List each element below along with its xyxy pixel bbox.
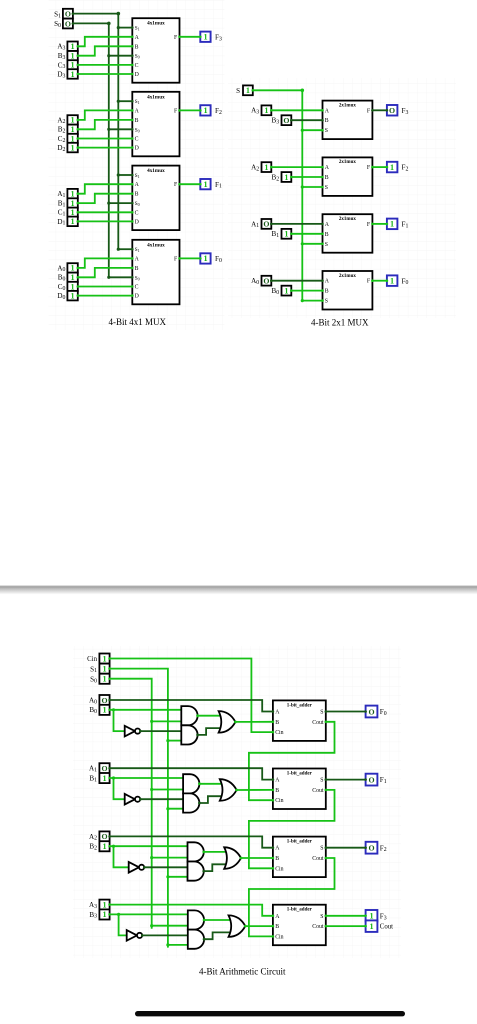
svg-text:1: 1 bbox=[71, 70, 75, 79]
svg-text:1: 1 bbox=[284, 286, 288, 295]
svg-text:B: B bbox=[325, 289, 329, 295]
pin dot AND1 row3 out bbox=[203, 919, 206, 922]
pin dot mux7 F bbox=[371, 109, 374, 112]
svg-text:S0: S0 bbox=[135, 54, 140, 60]
wire B2 to mux bbox=[291, 176, 322, 178]
wire S1 tap mux2 bbox=[118, 100, 132, 102]
svg-text:C: C bbox=[135, 63, 139, 69]
wire S row0 to F0 bbox=[326, 711, 366, 713]
svg-text:B: B bbox=[275, 720, 279, 726]
wire A1 to A pin bbox=[78, 184, 133, 194]
output pin F1 right circuit bbox=[386, 219, 398, 230]
junction S1 tap row2 bbox=[166, 875, 169, 878]
svg-text:1: 1 bbox=[102, 842, 106, 851]
svg-text:1: 1 bbox=[71, 291, 75, 300]
junction S1 tap mux2 bbox=[117, 100, 120, 103]
and gate G2a bbox=[188, 842, 204, 861]
output pin F3 right circuit bbox=[386, 105, 398, 116]
wire D2 to D pin bbox=[78, 147, 133, 149]
wire A3 to A pin bbox=[78, 37, 133, 47]
pin dot mux3 C bbox=[131, 64, 134, 67]
wire S0 tap mux1 bbox=[109, 202, 133, 204]
pin dot adder1 A bbox=[272, 778, 275, 781]
wire S0 tap mux0 bbox=[109, 276, 133, 278]
pin dot mux5 S bbox=[321, 243, 324, 246]
svg-text:O: O bbox=[101, 764, 107, 773]
pin dot OR row1 out bbox=[235, 789, 238, 792]
output pin F0 value 1 bbox=[199, 253, 211, 263]
svg-text:1: 1 bbox=[390, 277, 394, 286]
wire OR row2 out to adder B bbox=[241, 857, 273, 859]
wire B0 to AND gate bbox=[110, 709, 184, 711]
wire NOT0 out to AND2 bbox=[140, 730, 183, 732]
svg-text:4-Bit 2x1 MUX: 4-Bit 2x1 MUX bbox=[311, 317, 369, 327]
svg-text:O: O bbox=[368, 707, 374, 716]
svg-text:4x1mux: 4x1mux bbox=[147, 94, 165, 100]
wire F1 output bbox=[180, 183, 201, 185]
wire S1 tap row0 bbox=[168, 740, 183, 742]
wire B1 to NOT gate bbox=[114, 778, 125, 799]
wire B3 to B pin bbox=[78, 46, 133, 55]
svg-text:1: 1 bbox=[71, 264, 75, 273]
svg-text:D: D bbox=[135, 219, 139, 225]
pin dot mux3 S0 bbox=[131, 54, 134, 57]
svg-text:1: 1 bbox=[71, 116, 75, 125]
input pin D3 value 1 bbox=[67, 69, 79, 79]
pin dot NOT1 out bbox=[139, 798, 142, 801]
junction S1 corner bbox=[117, 12, 121, 16]
pin dot mux0 B bbox=[131, 267, 134, 270]
wire F1 output right bbox=[372, 223, 387, 225]
pin dot mux2 S1 bbox=[131, 100, 134, 103]
wire S0 tap mux2 bbox=[109, 128, 133, 130]
pin dot adder3 Cin bbox=[272, 935, 275, 938]
pin dot mux6 S bbox=[321, 186, 324, 189]
pin dot mux0 S0 bbox=[131, 276, 134, 279]
svg-text:1: 1 bbox=[102, 910, 106, 919]
wire AND1 row3 out to OR bbox=[204, 919, 231, 921]
pin dot AND2 row0 out bbox=[196, 734, 199, 737]
subcircuit 4x1mux U1 block bbox=[132, 166, 179, 231]
svg-text:B: B bbox=[135, 118, 139, 124]
not gate G1n bbox=[125, 794, 141, 805]
input pin A2 bbox=[262, 162, 273, 172]
junction B2 split bbox=[112, 845, 115, 848]
wire S tap mux2 bbox=[302, 186, 322, 188]
svg-text:1: 1 bbox=[203, 254, 207, 263]
input pin A2 value 1 bbox=[67, 115, 79, 125]
and gate G0b bbox=[181, 725, 197, 744]
wire Cout0 to Cin1 bbox=[249, 722, 335, 800]
wire B1 to AND gate bbox=[110, 777, 186, 779]
output pin F0 right circuit bbox=[386, 275, 398, 286]
wire B0 to NOT gate bbox=[114, 710, 125, 731]
svg-text:Cout: Cout bbox=[312, 856, 324, 862]
svg-text:B: B bbox=[275, 856, 279, 862]
wire B3 to NOT gate bbox=[119, 914, 127, 935]
output pin F2 value 0 bbox=[364, 842, 377, 854]
svg-text:C: C bbox=[135, 210, 139, 216]
wire S tap mux1 bbox=[302, 243, 322, 245]
svg-text:2x1mux: 2x1mux bbox=[339, 160, 356, 165]
wire S1 tap mux3 bbox=[118, 27, 132, 29]
svg-text:1: 1 bbox=[71, 190, 75, 199]
svg-text:B: B bbox=[325, 175, 329, 181]
subcircuit 2x1mux U4 block bbox=[323, 271, 373, 310]
svg-text:O: O bbox=[101, 832, 107, 841]
svg-text:1: 1 bbox=[264, 163, 268, 172]
wire B1 to B pin bbox=[78, 194, 133, 203]
pin dot mux2 D bbox=[131, 146, 134, 149]
pin dot mux3 D bbox=[131, 73, 134, 76]
wire F0 output bbox=[180, 257, 201, 259]
svg-text:4-Bit Arithmetic Circuit: 4-Bit Arithmetic Circuit bbox=[199, 966, 286, 976]
wire C3 to C pin bbox=[78, 64, 133, 66]
svg-text:1: 1 bbox=[203, 33, 207, 42]
pin dot mux6 B bbox=[321, 176, 324, 179]
svg-text:1: 1 bbox=[102, 900, 106, 909]
subcircuit 1-bit_adder U11 block bbox=[273, 905, 326, 946]
input pin D2 value 1 bbox=[67, 143, 79, 153]
wire D3 to D pin bbox=[78, 73, 133, 75]
wire NOT1 out to AND2 bbox=[140, 798, 185, 800]
page divider shadow bbox=[0, 586, 477, 588]
svg-text:2x1mux: 2x1mux bbox=[339, 217, 356, 222]
input pin Cin value 1 bbox=[99, 654, 110, 664]
wire AND1 row1 out to OR bbox=[199, 783, 222, 785]
not gate G3n bbox=[127, 930, 143, 941]
pin dot adder2 S bbox=[325, 846, 328, 849]
junction S corner bbox=[301, 89, 305, 93]
pin dot mux5 F bbox=[371, 223, 374, 226]
pin dot mux2 S0 bbox=[131, 128, 134, 131]
output pin F3 value 1 bbox=[364, 910, 377, 922]
junction S1 tap row0 bbox=[166, 739, 169, 742]
input pin A0 bbox=[262, 276, 273, 286]
svg-text:Cin: Cin bbox=[275, 866, 283, 872]
wire B3 to mux bbox=[291, 119, 322, 121]
wire F2 output bbox=[180, 109, 201, 111]
wire B2 to AND gate bbox=[110, 845, 190, 847]
svg-text:2x1mux: 2x1mux bbox=[339, 103, 356, 108]
pin dot adder1 B bbox=[272, 789, 275, 792]
wire Cout final bbox=[326, 925, 366, 927]
pin dot mux1 F bbox=[178, 183, 181, 186]
pin dot NOT0 out bbox=[139, 730, 142, 733]
wire Cout2 to Cin3 bbox=[249, 858, 335, 936]
wire NOT2 out to AND2 bbox=[144, 866, 189, 868]
wire Cin to adder0 bbox=[110, 659, 273, 733]
svg-text:S0: S0 bbox=[135, 201, 140, 207]
wire S1 tap row2 bbox=[168, 876, 190, 878]
pin dot adder2 A bbox=[272, 846, 275, 849]
svg-text:Cout: Cout bbox=[380, 924, 393, 931]
input pin B2 bbox=[282, 172, 293, 182]
svg-text:S1: S1 bbox=[135, 26, 140, 32]
wire AND2 row3 out to OR bbox=[204, 932, 231, 939]
svg-text:S: S bbox=[320, 846, 323, 852]
svg-text:S: S bbox=[325, 185, 328, 191]
and gate G2b bbox=[188, 862, 204, 881]
subcircuit 4x1mux U0 block bbox=[132, 240, 179, 304]
wire B3 to AND gate bbox=[110, 913, 190, 915]
svg-text:1: 1 bbox=[264, 106, 268, 115]
pin dot mux0 A bbox=[131, 257, 134, 260]
or gate G0o bbox=[219, 711, 236, 733]
input pin C0 value 1 bbox=[67, 282, 79, 292]
svg-text:Cout: Cout bbox=[312, 924, 324, 930]
pin dot OR row3 out bbox=[244, 925, 247, 928]
junction S0 tap row1 bbox=[150, 788, 153, 791]
pin dot mux2 A bbox=[131, 109, 134, 112]
wire S0 tap row0 bbox=[152, 720, 184, 722]
input pin A1 bbox=[99, 763, 110, 773]
svg-text:O: O bbox=[65, 10, 71, 19]
wire S tap mux0 bbox=[302, 300, 322, 302]
wire A3 to mux bbox=[271, 109, 322, 111]
wire B0 to B pin bbox=[78, 268, 133, 277]
svg-text:1: 1 bbox=[246, 86, 250, 95]
pin dot mux5 A bbox=[321, 223, 324, 226]
subcircuit 4x1mux U2 block bbox=[132, 92, 179, 157]
wire A1 to mux bbox=[271, 223, 322, 225]
junction S1 tap row1 bbox=[166, 807, 169, 810]
wire OR row1 out to adder B bbox=[237, 789, 273, 791]
svg-text:1: 1 bbox=[284, 230, 288, 239]
svg-text:S: S bbox=[325, 299, 328, 305]
output pin Cout value 1 bbox=[364, 920, 377, 932]
svg-text:4-Bit 4x1 MUX: 4-Bit 4x1 MUX bbox=[109, 317, 167, 327]
wire F0 output right bbox=[372, 280, 387, 282]
junction S1 tap mux1 bbox=[117, 173, 120, 176]
wire S row3 to F3 bbox=[326, 915, 366, 917]
wire S1 tap mux1 bbox=[118, 174, 132, 176]
svg-text:D: D bbox=[135, 294, 139, 300]
input pin A3 value 1 bbox=[67, 42, 79, 52]
input pin S0 value 1 bbox=[99, 674, 110, 684]
wire S0 tap row1 bbox=[152, 789, 185, 791]
wire S1 tap mux0 bbox=[118, 248, 132, 250]
svg-text:1: 1 bbox=[71, 273, 75, 282]
input pin C3 value 1 bbox=[67, 60, 79, 69]
svg-text:Cin: Cin bbox=[275, 730, 283, 736]
output pin F0 value 0 bbox=[364, 706, 377, 718]
wire A0 to adder bbox=[110, 700, 273, 712]
wire A0 to A pin bbox=[78, 258, 133, 268]
wire S0 tap row2 bbox=[152, 857, 190, 859]
svg-text:S1: S1 bbox=[135, 247, 140, 253]
svg-text:4x1mux: 4x1mux bbox=[147, 168, 165, 174]
wire AND2 row2 out to OR bbox=[204, 864, 227, 871]
and gate G1a bbox=[183, 774, 199, 793]
svg-text:B: B bbox=[275, 924, 279, 930]
pin dot AND2 row3 out bbox=[203, 938, 206, 941]
wire C1 to C pin bbox=[78, 211, 133, 213]
pin dot mux0 S1 bbox=[131, 248, 134, 251]
output pin F1 value 0 bbox=[364, 774, 377, 786]
subcircuit 2x1mux U7 block bbox=[323, 101, 373, 140]
pin dot mux2 B bbox=[131, 119, 134, 122]
input pin D1 value 1 bbox=[67, 217, 79, 227]
input pin B1 bbox=[282, 229, 293, 239]
wire S1 bus bottom bbox=[110, 669, 168, 948]
wire AND1 row0 out to OR bbox=[198, 715, 222, 717]
svg-text:1: 1 bbox=[71, 42, 75, 51]
wire S tap mux3 bbox=[302, 129, 322, 131]
input pin A3 bbox=[262, 105, 273, 115]
pin dot adder0 Cout bbox=[325, 721, 328, 724]
wire OR row0 out to adder B bbox=[235, 721, 273, 723]
input pin B3 bbox=[282, 115, 293, 125]
pin dot mux3 F bbox=[178, 36, 181, 39]
svg-text:D: D bbox=[135, 72, 139, 78]
input pin B2 value 1 bbox=[67, 125, 79, 135]
input pin B3 value 1 bbox=[67, 51, 79, 61]
pin dot mux7 S bbox=[321, 129, 324, 132]
svg-text:1-bit_adder: 1-bit_adder bbox=[287, 908, 313, 913]
svg-text:S1: S1 bbox=[135, 99, 140, 105]
svg-text:O: O bbox=[263, 277, 269, 286]
pin dot adder2 Cin bbox=[272, 867, 275, 870]
pin dot mux1 C bbox=[131, 211, 134, 214]
svg-text:O: O bbox=[389, 106, 395, 115]
wire OR row3 out to adder B bbox=[245, 925, 273, 927]
svg-text:Cin: Cin bbox=[275, 798, 283, 804]
not gate G2n bbox=[129, 862, 145, 873]
svg-text:1: 1 bbox=[71, 143, 75, 152]
pin dot mux4 F bbox=[371, 279, 374, 282]
svg-text:B: B bbox=[325, 118, 329, 124]
junction S0 corner bbox=[107, 22, 111, 26]
svg-text:S0: S0 bbox=[135, 127, 140, 133]
grid right canvas bbox=[228, 78, 456, 318]
svg-text:1: 1 bbox=[284, 173, 288, 182]
junction S0 tap mux3 bbox=[107, 54, 110, 57]
svg-text:4x1mux: 4x1mux bbox=[147, 242, 165, 248]
grid left canvas bbox=[49, 0, 225, 330]
junction S tap mux3 bbox=[301, 129, 304, 132]
pin dot mux0 C bbox=[131, 285, 134, 288]
pin dot adder1 Cin bbox=[272, 799, 275, 802]
svg-text:S0: S0 bbox=[135, 275, 140, 281]
input pin S value 1 bbox=[243, 85, 254, 95]
svg-text:S: S bbox=[320, 914, 323, 920]
wire A3 to adder bbox=[110, 905, 273, 916]
input pin B2 bbox=[99, 841, 110, 851]
svg-text:1-bit_adder: 1-bit_adder bbox=[287, 840, 313, 845]
wire A2 to A pin bbox=[78, 110, 133, 120]
wire D0 to D pin bbox=[78, 295, 133, 297]
pin dot AND2 row1 out bbox=[198, 802, 201, 805]
junction B1 split bbox=[112, 776, 115, 779]
input pin A0 value 1 bbox=[67, 263, 79, 273]
pin dot mux6 F bbox=[371, 166, 374, 169]
svg-text:1: 1 bbox=[71, 199, 75, 208]
subcircuit 2x1mux U6 block bbox=[323, 157, 373, 196]
svg-text:Cout: Cout bbox=[312, 788, 324, 794]
wire B2 to B pin bbox=[78, 120, 133, 129]
pin dot mux6 A bbox=[321, 166, 324, 169]
svg-text:B: B bbox=[325, 232, 329, 238]
grid bottom canvas bbox=[73, 646, 401, 958]
wire S row1 to F1 bbox=[326, 779, 366, 781]
wire B0 to mux bbox=[291, 290, 322, 292]
wire S0 bus bbox=[73, 23, 109, 277]
svg-text:1: 1 bbox=[102, 664, 106, 673]
wire F2 output right bbox=[372, 166, 387, 168]
input pin C2 value 1 bbox=[67, 134, 79, 144]
junction S1 tap mux0 bbox=[117, 248, 120, 251]
junction S0 tap row0 bbox=[150, 720, 153, 723]
wire S0 bus bottom bbox=[110, 679, 152, 929]
pin dot mux1 B bbox=[131, 192, 134, 195]
subcircuit 4x1mux U3 block bbox=[132, 18, 179, 83]
wire S row2 to F2 bbox=[326, 847, 366, 849]
svg-text:B: B bbox=[135, 192, 139, 198]
subcircuit 1-bit_adder U8 block bbox=[273, 700, 326, 741]
wire S1 tap row3 bbox=[168, 944, 190, 946]
svg-text:O: O bbox=[283, 116, 289, 125]
pin dot adder1 S bbox=[325, 778, 328, 781]
output pin F1 value 1 bbox=[199, 179, 211, 189]
svg-text:1: 1 bbox=[71, 52, 75, 61]
svg-text:O: O bbox=[263, 220, 269, 229]
svg-text:1: 1 bbox=[71, 282, 75, 291]
wire F3 output right bbox=[372, 109, 387, 111]
pin dot mux1 D bbox=[131, 220, 134, 223]
pin dot adder2 Cout bbox=[325, 857, 328, 860]
svg-text:C: C bbox=[135, 137, 139, 143]
pin dot mux7 A bbox=[321, 109, 324, 112]
pin dot mux3 S1 bbox=[131, 26, 134, 29]
pin dot mux0 F bbox=[178, 257, 181, 260]
svg-text:O: O bbox=[368, 844, 374, 853]
svg-text:S: S bbox=[320, 710, 323, 716]
output pin F3 value 1 bbox=[199, 32, 211, 42]
input pin S1 value 1 bbox=[99, 664, 110, 674]
wire NOT3 out to AND2 bbox=[142, 934, 190, 936]
svg-text:O: O bbox=[65, 19, 71, 28]
or gate G2o bbox=[224, 847, 241, 869]
svg-text:1: 1 bbox=[203, 106, 207, 115]
and gate G0a bbox=[181, 706, 197, 725]
or gate G3o bbox=[229, 915, 246, 937]
pin dot mux4 A bbox=[321, 279, 324, 282]
wire S1 tap row1 bbox=[168, 808, 185, 810]
wire S0 tap row3 bbox=[152, 925, 190, 927]
junction S0 tap row3 bbox=[150, 924, 153, 927]
wire AND2 row1 out to OR bbox=[199, 796, 222, 803]
svg-text:1: 1 bbox=[102, 654, 106, 663]
subcircuit 1-bit_adder U9 block bbox=[273, 769, 326, 810]
svg-text:O: O bbox=[101, 696, 107, 705]
pin dot AND1 row0 out bbox=[196, 714, 199, 717]
svg-text:S: S bbox=[325, 128, 328, 134]
wire F3 output bbox=[180, 36, 201, 38]
input pin B0 bbox=[282, 286, 293, 296]
pin dot adder3 Cout bbox=[325, 925, 328, 928]
svg-text:1: 1 bbox=[71, 125, 75, 134]
svg-text:B: B bbox=[135, 266, 139, 272]
pin dot mux3 B bbox=[131, 45, 134, 48]
svg-text:S: S bbox=[325, 242, 328, 248]
wire Cout1 to Cin2 bbox=[249, 790, 335, 868]
wire B2 to NOT gate bbox=[114, 846, 129, 867]
input pin S1 value 0 bbox=[63, 9, 74, 19]
junction S1 tap mux3 bbox=[117, 26, 120, 29]
pin dot adder0 S bbox=[325, 710, 328, 713]
svg-text:C: C bbox=[135, 285, 139, 291]
